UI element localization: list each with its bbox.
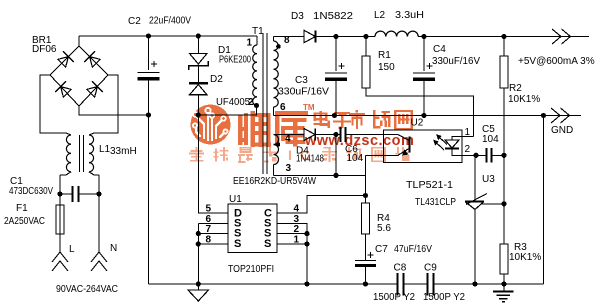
label R3 10K1% xyxy=(509,242,541,263)
svg-text:TOP210PFI: TOP210PFI xyxy=(228,264,274,275)
node C2 bottom junction xyxy=(146,112,151,117)
T1 bias winding xyxy=(274,135,281,176)
svg-text:S: S xyxy=(234,238,241,250)
svg-text:C4: C4 xyxy=(433,44,446,55)
wire bias pin4 to D4 xyxy=(274,134,305,136)
watermark row1 big characters xyxy=(238,110,413,147)
common mode choke L1 33mH xyxy=(60,133,99,175)
diode D2 UF4005 xyxy=(189,83,208,115)
U1 internal letters xyxy=(234,208,272,250)
diode D3 1N5822 xyxy=(304,30,315,42)
node C7 bottom xyxy=(363,281,368,286)
svg-text:47uF/16V: 47uF/16V xyxy=(394,244,432,255)
diode D4 1N4148 xyxy=(304,129,315,141)
node D1 top xyxy=(196,33,201,38)
label R4 5.6 xyxy=(377,213,391,234)
+5V output chevrons xyxy=(552,29,571,44)
opto phototransistor xyxy=(384,135,410,156)
top HV rail wire xyxy=(79,35,257,37)
svg-text:1500P Y2: 1500P Y2 xyxy=(423,292,465,303)
node R3 bottom xyxy=(501,281,506,286)
label D2 UF4005 xyxy=(210,74,250,108)
svg-text:UF4005: UF4005 xyxy=(216,97,250,108)
svg-text:8: 8 xyxy=(206,235,212,246)
label L2 3.3uH xyxy=(374,10,424,21)
label R2 10K1% xyxy=(508,83,540,105)
svg-text:10K1%: 10K1% xyxy=(509,252,541,263)
rail C8-C9 link xyxy=(404,283,428,285)
node R1 top xyxy=(363,34,368,39)
svg-text:4: 4 xyxy=(285,134,291,145)
wire secondary to D3 xyxy=(274,36,305,38)
resistor R2 10K1% xyxy=(500,37,508,204)
svg-text:33mH: 33mH xyxy=(110,146,137,157)
transformer T1 core xyxy=(263,33,267,174)
svg-text:3: 3 xyxy=(286,163,292,174)
svg-text:C3: C3 xyxy=(295,75,308,86)
U1 right pin wires xyxy=(277,196,366,285)
svg-text:GND: GND xyxy=(551,125,573,136)
svg-text:D2: D2 xyxy=(210,74,223,85)
resistor R1 150 xyxy=(362,37,474,137)
svg-text:R2: R2 xyxy=(509,83,522,94)
TVS D1 P6KE200 xyxy=(189,36,209,83)
T1 secondary winding xyxy=(274,37,281,116)
wire drain link to T1 pin2 xyxy=(196,106,257,118)
svg-text:473DC630V: 473DC630V xyxy=(9,186,53,197)
N input line and arrows xyxy=(91,194,107,271)
bridge rectifier BR1 DF06 xyxy=(40,36,149,133)
wire GND drop to bottom rail xyxy=(543,116,545,285)
svg-text:5.6: 5.6 xyxy=(377,223,391,234)
svg-text:2: 2 xyxy=(465,144,471,155)
svg-text:U2: U2 xyxy=(411,118,424,129)
secondary ground rail segment xyxy=(434,283,544,285)
svg-text:L2: L2 xyxy=(374,10,386,21)
label BR1 DF06 xyxy=(32,35,57,55)
svg-text:104: 104 xyxy=(482,134,499,145)
label C6 104 xyxy=(345,144,364,164)
svg-text:I: I xyxy=(288,147,292,163)
GND chevrons xyxy=(551,108,570,123)
node R2 top xyxy=(501,34,506,39)
resistor R3 10K1% xyxy=(500,204,508,284)
capacitor C5 104 xyxy=(476,148,507,163)
label R1 150 xyxy=(378,50,395,73)
node D4 cathode xyxy=(316,132,341,137)
svg-text:3.3uH: 3.3uH xyxy=(395,10,424,21)
svg-text:TL431CLP: TL431CLP xyxy=(415,197,456,208)
capacitor C1 473DC630V xyxy=(57,186,101,202)
svg-text:10K1%: 10K1% xyxy=(508,94,540,105)
svg-text:3: 3 xyxy=(294,214,300,225)
resistor R4 5.6 xyxy=(362,203,370,234)
wire L2 to +5V output xyxy=(418,36,589,38)
svg-text:1: 1 xyxy=(294,235,300,246)
wire D3 to L2 xyxy=(316,36,375,38)
U1 right pin numbers xyxy=(294,204,300,246)
label C1 473DC630V xyxy=(9,176,53,197)
L input arrows xyxy=(52,252,68,271)
svg-text:C8: C8 xyxy=(394,263,407,274)
wire N line down xyxy=(98,175,100,194)
svg-text:1N4148: 1N4148 xyxy=(296,154,324,165)
label C2 xyxy=(128,16,191,28)
node right bus bottom xyxy=(304,281,309,286)
svg-text:U1: U1 xyxy=(229,194,242,205)
svg-text:N: N xyxy=(110,243,117,254)
inductor L2 3.3uH xyxy=(375,31,418,36)
U1 left pin numbers xyxy=(206,204,212,246)
label D3 1N5822 xyxy=(291,11,353,22)
opto light arrows xyxy=(433,134,447,150)
svg-text:150: 150 xyxy=(378,62,395,73)
svg-text:22uF/400V: 22uF/400V xyxy=(149,16,191,27)
svg-text:T1: T1 xyxy=(252,26,264,37)
svg-text:EE16R2KD-UR5V4W: EE16R2KD-UR5V4W xyxy=(233,176,316,187)
U1 TOP210PFI box xyxy=(228,204,277,253)
node U1 source bus xyxy=(196,281,201,286)
TL431 U3 xyxy=(465,155,504,284)
node C3 bottom xyxy=(332,113,337,118)
watermark logo circle xyxy=(191,105,231,145)
svg-text:C7: C7 xyxy=(375,244,388,255)
wire C2 down to ground rail xyxy=(148,115,150,284)
wire L line down xyxy=(59,175,61,194)
node C2 top xyxy=(146,33,151,38)
node opto pin2 xyxy=(473,153,478,158)
svg-text:104: 104 xyxy=(347,153,364,164)
label F1 2A250VAC xyxy=(4,203,45,227)
T1 pin 2 node xyxy=(248,97,259,108)
node C3 top xyxy=(333,34,338,39)
svg-text:C9: C9 xyxy=(424,263,437,274)
label C4 xyxy=(432,44,480,67)
svg-text:1: 1 xyxy=(465,127,471,138)
capacitor C3 330uF/16V xyxy=(325,37,347,116)
svg-text:1500P Y2: 1500P Y2 xyxy=(373,292,415,303)
svg-text:6: 6 xyxy=(206,214,212,225)
opto LED xyxy=(445,137,476,156)
transformer T1 primary winding xyxy=(253,36,257,106)
svg-text:6: 6 xyxy=(280,102,286,113)
earth ground symbol xyxy=(493,284,514,302)
svg-text:+5V@600mA 3%: +5V@600mA 3% xyxy=(518,56,595,67)
capacitor C7 47uF/16V xyxy=(355,234,376,284)
wire drain column down to U1 pin5 xyxy=(198,115,228,213)
svg-text:F1: F1 xyxy=(16,203,28,214)
node C4 top xyxy=(421,34,426,39)
GND rail wire xyxy=(274,115,582,117)
svg-text:U3: U3 xyxy=(482,174,495,185)
svg-text:D3: D3 xyxy=(291,11,304,22)
svg-text:R1: R1 xyxy=(378,50,391,61)
svg-text:L: L xyxy=(69,244,75,255)
capacitor C9 1500P Y2 xyxy=(428,273,434,296)
svg-text:L1: L1 xyxy=(99,144,111,155)
label D4 1N4148 xyxy=(296,146,324,165)
svg-text:2A250VAC: 2A250VAC xyxy=(4,216,45,227)
svg-text:P6KE200: P6KE200 xyxy=(219,55,251,66)
svg-text:DF06: DF06 xyxy=(32,44,57,55)
svg-text:www.dzsc.com: www.dzsc.com xyxy=(304,133,414,149)
optocoupler U2 box xyxy=(384,130,463,163)
primary ground triangle xyxy=(188,284,209,301)
svg-text:C2: C2 xyxy=(128,16,141,27)
capacitor C4 330uF/16V xyxy=(413,37,435,116)
svg-text:TLP521-1: TLP521-1 xyxy=(406,180,453,191)
capacitor C6 104 xyxy=(341,127,384,142)
U1 left pin wires xyxy=(196,223,228,284)
label C7 47uF/16V xyxy=(375,244,432,255)
svg-text:90VAC-264VAC: 90VAC-264VAC xyxy=(56,284,118,295)
node TL431 ref xyxy=(501,201,506,206)
svg-text:1: 1 xyxy=(247,38,253,49)
label L1 33mH xyxy=(99,144,137,157)
svg-text:2: 2 xyxy=(248,97,254,108)
svg-text:330uF/16V: 330uF/16V xyxy=(278,87,329,98)
label C3 xyxy=(278,75,329,98)
svg-text:1N5822: 1N5822 xyxy=(313,11,353,22)
svg-text:330uF/16V: 330uF/16V xyxy=(432,56,480,67)
node TL431 anode bottom xyxy=(472,281,477,286)
node control xyxy=(363,193,368,198)
watermark row2 slogan xyxy=(189,147,410,163)
fuse F1 xyxy=(56,194,64,252)
capacitor C8 1500P Y2 xyxy=(398,273,404,296)
node GND drop xyxy=(541,113,546,118)
wire aux return xyxy=(274,135,366,178)
svg-text:TM: TM xyxy=(303,103,315,112)
svg-text:S: S xyxy=(264,238,271,250)
node C4 bottom xyxy=(421,113,426,118)
primary ground rail xyxy=(149,283,398,285)
label C5 104 xyxy=(482,124,499,145)
wire emitter to control node xyxy=(366,154,384,156)
label D1 P6KE200 xyxy=(218,45,251,66)
capacitor C2 xyxy=(138,36,160,115)
